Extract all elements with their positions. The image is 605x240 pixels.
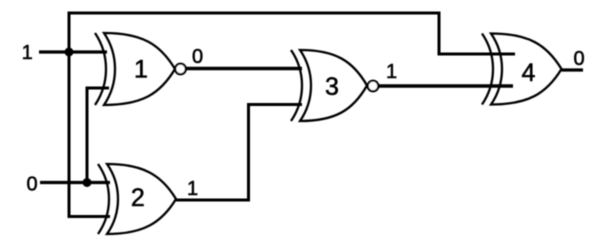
gate U3 XNOR body	[300, 50, 367, 121]
svg-text:3: 3	[325, 73, 339, 101]
svg-text:0: 0	[192, 46, 203, 68]
svg-text:0: 0	[573, 48, 584, 70]
gate U3 XNOR input arc	[291, 50, 302, 121]
gate U4 XOR body	[491, 34, 562, 105]
wire top rail: junction up, across top, down into gate 4 top input	[69, 13, 515, 54]
gate U1 output bubble	[175, 64, 186, 75]
gate U3 output bubble	[368, 81, 379, 92]
svg-text:1: 1	[134, 56, 148, 84]
svg-text:4: 4	[522, 59, 536, 87]
wire gate 1 output to gate 3 top input	[186, 67, 302, 70]
svg-text:1: 1	[22, 42, 33, 64]
svg-text:1: 1	[386, 61, 397, 83]
gate U2 XOR input arc	[98, 164, 109, 234]
node junction input-0	[83, 178, 92, 187]
wire input-1 horizontal to gate 1 top input	[39, 50, 107, 53]
wire gate 3 output to gate 4 bottom input	[379, 84, 514, 87]
gate U1 XNOR body	[104, 33, 175, 105]
wire from input-0 junction up to gate 1 bottom input	[87, 88, 109, 183]
wire vertical from input-1 junction down to gate 2 bottom input	[69, 52, 110, 217]
wire gate 2 output up to gate 3 bottom input	[176, 105, 302, 201]
wire gate 4 output	[562, 68, 584, 71]
gate U1 XNOR input arc	[95, 33, 106, 105]
gate U4 XOR input arc	[482, 34, 493, 105]
svg-text:1: 1	[187, 178, 198, 200]
wire input-0 horizontal to gate 2 top input	[40, 181, 110, 184]
svg-text:2: 2	[131, 184, 145, 212]
node junction input-1	[65, 48, 74, 57]
svg-text:0: 0	[26, 173, 37, 195]
gate U2 XOR body	[107, 164, 176, 234]
